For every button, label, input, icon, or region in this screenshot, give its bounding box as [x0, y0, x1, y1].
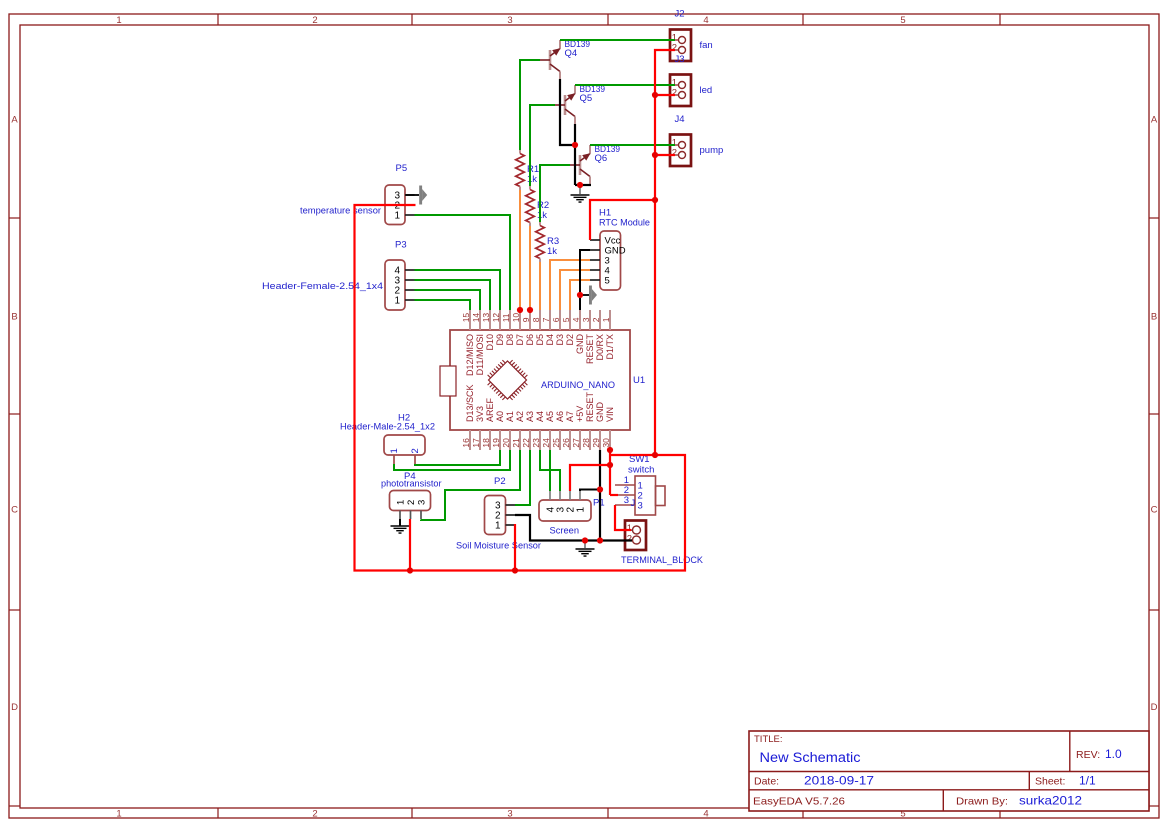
svg-text:5: 5 [900, 15, 905, 26]
switch SW1 [635, 476, 656, 515]
svg-text:6: 6 [551, 317, 561, 322]
svg-text:1: 1 [116, 15, 121, 26]
wire P4 pin3 to U1 A2 [421, 450, 520, 520]
ground at Q6 emitter node [579, 185, 581, 194]
svg-text:2: 2 [591, 317, 601, 322]
svg-text:18: 18 [481, 438, 491, 448]
svg-text:Screen: Screen [550, 526, 580, 537]
svg-text:1: 1 [627, 523, 632, 534]
svg-text:24: 24 [541, 438, 551, 448]
wire Q5 collector down [574, 124, 576, 185]
svg-text:Q5: Q5 [580, 93, 593, 104]
resistor R1 [519, 150, 521, 154]
svg-text:D7: D7 [515, 334, 525, 346]
junction +bus J3 [652, 92, 658, 98]
svg-text:1: 1 [495, 521, 501, 532]
junction D7 pin [517, 307, 523, 313]
svg-text:1: 1 [389, 448, 400, 453]
junction gnd bus tap [582, 537, 588, 543]
svg-text:phototransistor: phototransistor [381, 479, 442, 490]
svg-text:Soil Moisture Sensor: Soil Moisture Sensor [456, 541, 541, 552]
connector H1 RTC [600, 231, 621, 290]
wire P2 pin3 to U1 A3 [515, 450, 530, 505]
svg-text:A4: A4 [535, 411, 545, 422]
svg-text:pump: pump [700, 145, 724, 156]
svg-text:Drawn By:: Drawn By: [956, 796, 1008, 808]
svg-text:2: 2 [627, 534, 632, 545]
svg-text:2: 2 [312, 15, 317, 26]
svg-text:J: J [631, 498, 636, 509]
svg-text:temperature sensor: temperature sensor [300, 206, 381, 217]
svg-text:D4: D4 [545, 334, 555, 346]
svg-text:7: 7 [541, 317, 551, 322]
svg-text:1: 1 [116, 809, 121, 820]
svg-text:9: 9 [521, 317, 531, 322]
svg-text:4: 4 [703, 15, 708, 26]
svg-text:3: 3 [507, 15, 512, 26]
connector P5 [385, 185, 405, 225]
wire H1 pin5 to U1 D2 [570, 280, 590, 310]
svg-text:A1: A1 [505, 411, 515, 422]
svg-text:A3: A3 [525, 411, 535, 422]
svg-text:D13/SCK: D13/SCK [465, 384, 475, 422]
svg-text:11: 11 [501, 313, 511, 322]
wire Q6 emitter to J4 pin1 [590, 144, 675, 146]
wire U1 VIN node [609, 450, 611, 495]
wire R1 bottom to U1 D7 [519, 190, 521, 310]
resistor R3 [539, 222, 541, 226]
svg-text:28: 28 [581, 438, 591, 448]
svg-text:P5: P5 [396, 163, 408, 174]
wire VIN to SW1 pin2 [610, 494, 618, 496]
signal ground at P5 pin3 [419, 186, 422, 205]
wire Q6 base to R3 top [540, 165, 570, 222]
svg-text:2: 2 [672, 88, 677, 99]
wire P5 pin2 around left to bottom bus [355, 205, 686, 571]
connector J2 [670, 30, 691, 62]
junction bottom bus P2 [512, 567, 518, 573]
svg-text:Q6: Q6 [595, 153, 608, 164]
svg-text:D: D [11, 702, 18, 713]
svg-text:21: 21 [511, 438, 521, 448]
wire H1 Vcc to +bus [590, 200, 655, 240]
svg-text:Q4: Q4 [565, 48, 578, 59]
svg-text:D1/TX: D1/TX [605, 334, 615, 360]
svg-text:3: 3 [638, 501, 643, 512]
svg-text:D3: D3 [555, 334, 565, 346]
junction gnd bus pin29 [597, 537, 603, 543]
svg-text:20: 20 [501, 438, 511, 448]
svg-text:J4: J4 [675, 114, 685, 125]
svg-text:27: 27 [571, 438, 581, 448]
wire Q4 collector down [560, 79, 575, 145]
svg-text:D2: D2 [565, 334, 575, 346]
junction D6 pin [527, 307, 533, 313]
wire H1 pin3 to U1 D4 [550, 260, 590, 310]
svg-text:P2: P2 [494, 476, 506, 487]
svg-text:A: A [11, 115, 18, 126]
wire P5 pin1 to U1 D8 [415, 215, 511, 310]
junction H1 gnd [577, 292, 583, 298]
wire P3 pin3 to U1 D10 [415, 280, 491, 310]
svg-text:surka2012: surka2012 [1019, 794, 1082, 808]
svg-text:1k: 1k [537, 210, 547, 221]
svg-text:1: 1 [601, 317, 611, 322]
wire SW1 pin3 to terminal block pin1 [615, 505, 631, 530]
title block frame [749, 731, 1149, 811]
svg-text:13: 13 [481, 313, 491, 323]
wire R2 bottom to U1 D6 [529, 226, 531, 310]
wire H1 GND to U1 GND pin4 [580, 250, 590, 310]
wire U1 A5 to Screen pin4 [549, 450, 551, 491]
wire Screen pin1 to gnd [580, 490, 600, 492]
svg-text:4: 4 [571, 317, 581, 322]
svg-text:1.0: 1.0 [1105, 747, 1122, 761]
wire P2 pin2 to gnd bus [515, 515, 632, 541]
connector J4 [670, 135, 691, 167]
svg-text:17: 17 [471, 438, 481, 448]
svg-text:TERMINAL_BLOCK: TERMINAL_BLOCK [621, 555, 704, 566]
wire J4 pin2 to +bus [655, 154, 675, 156]
svg-text:A2: A2 [515, 411, 525, 422]
wire H2 pin1 to U1 A1 [394, 450, 510, 470]
svg-text:1: 1 [394, 211, 400, 222]
junction +bus lower [652, 452, 658, 458]
ground at screen bus [584, 541, 586, 549]
svg-text:P3: P3 [395, 240, 407, 251]
svg-text:P1: P1 [593, 498, 605, 509]
wire H2 pin2 to U1 A0 [415, 450, 500, 465]
wire P5 pin3 to signal ground [406, 194, 420, 196]
svg-text:4: 4 [703, 809, 708, 820]
svg-text:8: 8 [531, 317, 541, 322]
svg-text:22: 22 [521, 438, 531, 448]
svg-text:led: led [700, 85, 713, 96]
svg-text:1k: 1k [527, 174, 537, 185]
svg-text:D8: D8 [505, 334, 515, 346]
svg-text:VIN: VIN [605, 407, 615, 422]
svg-text:30: 30 [601, 438, 611, 448]
ic U1 ARDUINO_NANO body and pins [450, 330, 630, 430]
svg-text:C: C [11, 505, 18, 516]
svg-text:D10: D10 [485, 334, 495, 351]
svg-text:10: 10 [511, 313, 521, 323]
svg-text:3: 3 [624, 495, 629, 506]
junction +bus J4 [652, 152, 658, 158]
svg-text:ARDUINO_NANO: ARDUINO_NANO [541, 380, 615, 391]
svg-text:2018-09-17: 2018-09-17 [804, 774, 874, 788]
connector P2 [485, 496, 506, 535]
svg-text:D0/RX: D0/RX [595, 334, 605, 361]
connector H2 [384, 435, 425, 455]
wire R3 bottom to U1 D5 [539, 262, 541, 310]
svg-text:D9: D9 [495, 334, 505, 346]
junction VIN pin [607, 447, 613, 453]
svg-text:2: 2 [410, 448, 421, 453]
svg-text:1: 1 [394, 296, 400, 307]
svg-text:2: 2 [406, 500, 417, 505]
svg-text:J2: J2 [675, 9, 685, 20]
wire U1 GND pin29 down [599, 450, 601, 541]
junction +bus H1 Vcc [652, 197, 658, 203]
svg-text:C: C [1151, 505, 1158, 516]
junction Q4/Q5 collectors [572, 142, 578, 148]
svg-text:3: 3 [416, 500, 427, 505]
svg-text:Header-Female-2.54_1x4: Header-Female-2.54_1x4 [262, 281, 383, 292]
svg-text:15: 15 [461, 313, 471, 323]
svg-text:B: B [1151, 312, 1157, 323]
svg-text:D: D [1151, 702, 1158, 713]
signal ground at H1 GND [589, 286, 592, 305]
svg-text:switch: switch [628, 465, 654, 476]
wire Q5 emitter to J3 pin1 [575, 84, 675, 86]
svg-text:REV:: REV: [1076, 749, 1100, 761]
svg-text:A: A [1151, 115, 1158, 126]
connector P3 [385, 260, 405, 310]
svg-text:RTC Module: RTC Module [599, 218, 650, 229]
svg-text:D5: D5 [535, 334, 545, 346]
svg-text:RESET: RESET [585, 334, 595, 365]
wire J3 pin2 to +bus [655, 94, 675, 96]
svg-text:25: 25 [551, 438, 561, 448]
svg-text:23: 23 [531, 438, 541, 448]
junction Q6 collector gnd [577, 182, 583, 188]
wire U1 A4 to Screen pin3 [540, 450, 560, 491]
wire H1 gnd tap to signal ground [580, 294, 589, 296]
svg-text:26: 26 [561, 438, 571, 448]
wire J2 pin2 to +bus [655, 50, 675, 455]
ground at P4 pin1 [399, 519, 401, 525]
svg-text:AREF: AREF [485, 397, 495, 422]
wire Q5 base to R2 top [530, 105, 555, 186]
wire VIN to Screen pin2 [570, 465, 610, 491]
svg-text:J3: J3 [675, 54, 685, 65]
svg-text:RESET: RESET [585, 391, 595, 422]
transistor Q6 BD139 [579, 155, 582, 175]
junction VIN branch [607, 462, 613, 468]
svg-text:B: B [11, 312, 17, 323]
wire P4 pin1 to ground [399, 519, 401, 526]
svg-text:5: 5 [605, 276, 610, 287]
svg-text:EasyEDA V5.7.26: EasyEDA V5.7.26 [753, 796, 845, 808]
svg-text:A0: A0 [495, 411, 505, 422]
svg-text:1k: 1k [547, 246, 557, 257]
svg-text:1: 1 [575, 507, 586, 513]
wire P4 pin2 to bottom bus [409, 519, 411, 571]
svg-text:+5V: +5V [575, 406, 585, 422]
svg-text:1: 1 [395, 500, 406, 505]
svg-text:3V3: 3V3 [475, 406, 485, 422]
U1 chip glyph [489, 361, 527, 399]
connector P1 Screen [539, 500, 591, 521]
svg-text:D6: D6 [525, 334, 535, 346]
wire H1 pin4 to U1 D3 [560, 270, 590, 310]
wire P3 pin2 to U1 D11 [415, 290, 481, 310]
wire Q4 emitter to J2 pin1 [560, 39, 675, 41]
transistor Q4 BD139 [549, 50, 552, 70]
svg-text:19: 19 [491, 438, 501, 448]
wire P3 pin1 to U1 D12 [415, 300, 471, 310]
svg-text:Sheet:: Sheet: [1035, 776, 1065, 788]
svg-text:TITLE:: TITLE: [754, 734, 783, 745]
wire Q6 collector to gnd node [575, 184, 591, 186]
svg-text:2: 2 [312, 809, 317, 820]
svg-text:2: 2 [672, 148, 677, 159]
svg-text:1/1: 1/1 [1079, 774, 1096, 788]
svg-text:16: 16 [461, 438, 471, 448]
svg-text:29: 29 [591, 438, 601, 448]
svg-text:D12/MISO: D12/MISO [465, 334, 475, 376]
svg-text:2: 2 [672, 43, 677, 54]
svg-text:12: 12 [491, 313, 501, 323]
wire Q4 base to R1 top [520, 60, 540, 150]
junction screen gnd [597, 486, 603, 492]
svg-text:GND: GND [595, 402, 605, 423]
connector J3 [670, 75, 691, 107]
svg-text:3: 3 [581, 317, 591, 322]
svg-text:A6: A6 [555, 411, 565, 422]
svg-text:5: 5 [561, 317, 571, 322]
transistor Q5 BD139 [564, 95, 567, 115]
svg-text:U1: U1 [633, 375, 645, 386]
wire P3 pin4 to U1 D9 [415, 270, 501, 310]
svg-text:A7: A7 [565, 411, 575, 422]
wire P2 pin1 to bottom bus [514, 524, 516, 571]
svg-text:New Schematic: New Schematic [760, 750, 861, 765]
connector P4 [390, 491, 431, 511]
svg-text:Date:: Date: [754, 776, 779, 788]
svg-text:D11/MOSI: D11/MOSI [475, 334, 485, 375]
resistor R2 [529, 186, 531, 190]
svg-text:fan: fan [700, 40, 713, 51]
junction bottom bus P4 [407, 567, 413, 573]
connector TERMINAL_BLOCK [625, 521, 646, 551]
svg-text:A5: A5 [545, 411, 555, 422]
svg-text:14: 14 [471, 313, 481, 323]
svg-text:3: 3 [507, 809, 512, 820]
svg-text:GND: GND [575, 334, 585, 355]
